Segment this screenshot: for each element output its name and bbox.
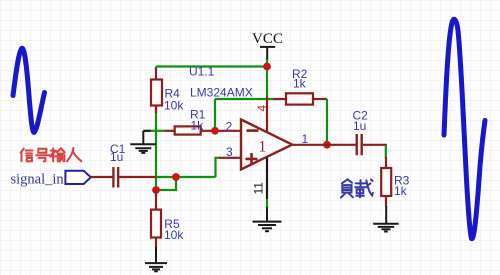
wire output to C2 bbox=[292, 144, 356, 146]
svg-text:10k: 10k bbox=[164, 228, 184, 242]
svg-text:1k: 1k bbox=[191, 118, 205, 132]
svg-text:4: 4 bbox=[255, 105, 269, 112]
op-amp U1 triangle bbox=[241, 120, 292, 170]
svg-text:1k: 1k bbox=[293, 76, 307, 90]
svg-text:1: 1 bbox=[259, 139, 267, 156]
wire feedback horizontal to R2 bbox=[215, 98, 274, 100]
wire C1 to node red part bbox=[119, 176, 156, 178]
pin 11 stub black bbox=[266, 158, 268, 200]
resistor R1 bbox=[165, 126, 241, 134]
pin 4 stub bbox=[266, 97, 268, 132]
wire C1 node green part to pin3 corner bbox=[156, 176, 216, 178]
ground at R3 bbox=[373, 206, 398, 232]
wire pin 11 green segment bbox=[266, 199, 268, 207]
svg-text:VCC: VCC bbox=[252, 31, 283, 47]
svg-text:U1.1: U1.1 bbox=[189, 65, 215, 79]
junction output node bbox=[323, 141, 331, 149]
resistor R4 bbox=[151, 68, 162, 113]
wire feedback vertical from pin2 node bbox=[214, 99, 216, 131]
svg-text:1u: 1u bbox=[110, 150, 123, 164]
wire pin3 corner green bbox=[216, 158, 221, 177]
wire VCC rail horizontal bbox=[156, 65, 267, 67]
pin 3 stub bbox=[219, 157, 241, 159]
svg-text:1k: 1k bbox=[394, 184, 408, 198]
label 信号输入 (signal input) hand-drawn glyphs bbox=[21, 148, 82, 162]
wire C2 down green bbox=[385, 145, 387, 158]
glyph 入 bbox=[67, 148, 82, 162]
svg-text:LM324AMX: LM324AMX bbox=[190, 86, 253, 100]
wire U-link node A down bbox=[156, 177, 176, 190]
ground at op-amp pin 11 bbox=[253, 207, 282, 231]
resistor R5 bbox=[151, 190, 161, 248]
resistor R2 bbox=[273, 93, 327, 104]
wire C2 right corner bbox=[363, 145, 386, 146]
glyph 载 bbox=[355, 180, 366, 187]
sine wave left bbox=[13, 48, 45, 132]
junction pin2 node bbox=[211, 127, 219, 135]
ground at R1 left bbox=[130, 131, 156, 153]
svg-text:10k: 10k bbox=[164, 99, 184, 113]
power port VCC bbox=[260, 47, 275, 59]
op-amp plus sign bbox=[246, 153, 258, 165]
wire R2 right down to output bbox=[326, 99, 328, 145]
wire R4 top lead green bbox=[155, 67, 157, 70]
svg-text:1u: 1u bbox=[353, 119, 366, 133]
wire R4 bottom long vertical to node B bbox=[155, 112, 157, 190]
wire ground to R1 green bbox=[151, 130, 167, 132]
glyph 负 bbox=[342, 179, 352, 183]
label 负载 (load) hand-drawn glyphs bbox=[341, 179, 373, 197]
capacitor C1 bbox=[113, 167, 118, 188]
resistor R3 bbox=[381, 157, 391, 207]
wire VCC stem green part bbox=[266, 58, 268, 97]
svg-text:2: 2 bbox=[226, 120, 233, 134]
sine wave right bbox=[444, 19, 485, 238]
glyph 信 bbox=[21, 149, 24, 162]
junction VCC node bbox=[263, 63, 271, 71]
wire port to C1 bbox=[91, 176, 113, 178]
junction node A bbox=[172, 173, 180, 181]
op-amp minus sign bbox=[247, 129, 259, 132]
wire ground to R1 black bbox=[143, 130, 151, 132]
svg-text:signal_in: signal_in bbox=[11, 172, 65, 188]
capacitor C2 bbox=[357, 134, 362, 155]
ground at R5 bbox=[145, 247, 167, 271]
svg-text:11: 11 bbox=[252, 182, 266, 195]
junction node B bbox=[152, 186, 160, 194]
glyph 号 bbox=[36, 149, 49, 156]
glyph 输 bbox=[50, 148, 56, 161]
port signal_in bbox=[65, 171, 90, 184]
